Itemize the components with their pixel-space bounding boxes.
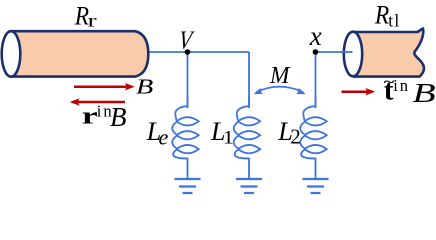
svg-text:r: r — [82, 102, 98, 129]
wire vertical from x down to L2 — [315, 52, 317, 108]
svg-text:tl: tl — [388, 11, 400, 31]
wire from node x to transmission line — [316, 51, 354, 53]
svg-text:B: B — [136, 76, 153, 99]
resonator cavity R_r left end cap — [2, 31, 21, 76]
red arrow B propagating right inside resonator — [74, 83, 135, 90]
svg-text:r: r — [88, 11, 97, 31]
svg-text:e: e — [159, 124, 169, 149]
svg-text:x: x — [309, 21, 322, 51]
wire vertical from V down to Le — [187, 52, 189, 108]
ground below L2 — [303, 179, 329, 193]
svg-text:V: V — [177, 27, 195, 56]
mutual inductance arrow M between L1 and L2 — [256, 87, 303, 93]
svg-text:B: B — [110, 102, 127, 132]
ground below Le — [175, 179, 201, 193]
svg-text:R: R — [374, 1, 389, 29]
wire vertical from corner down to L1 — [248, 52, 250, 108]
red arrow r^in B reflected left — [70, 98, 125, 105]
svg-text:M: M — [269, 63, 290, 90]
inductor L1 coil — [234, 96, 261, 178]
inductor L2 coil — [300, 96, 327, 178]
svg-text:2: 2 — [290, 124, 301, 148]
svg-text:B: B — [413, 79, 436, 109]
wire stub visible across R_tl end cap — [343, 51, 353, 53]
svg-text:1: 1 — [223, 126, 234, 148]
ground below L1 — [236, 179, 262, 193]
wire from resonator to node V and on to L1 branch — [145, 51, 249, 53]
transmission line R_tl body with torn right edge — [353, 28, 424, 76]
red arrow transmitted right at R_tl — [342, 88, 376, 95]
resonator cavity R_r body — [11, 31, 148, 76]
node x — [313, 49, 319, 55]
svg-text:in: in — [393, 76, 410, 95]
node V — [185, 49, 191, 55]
inductor Le coil — [172, 96, 199, 178]
transmission line R_tl left end cap — [344, 32, 362, 77]
